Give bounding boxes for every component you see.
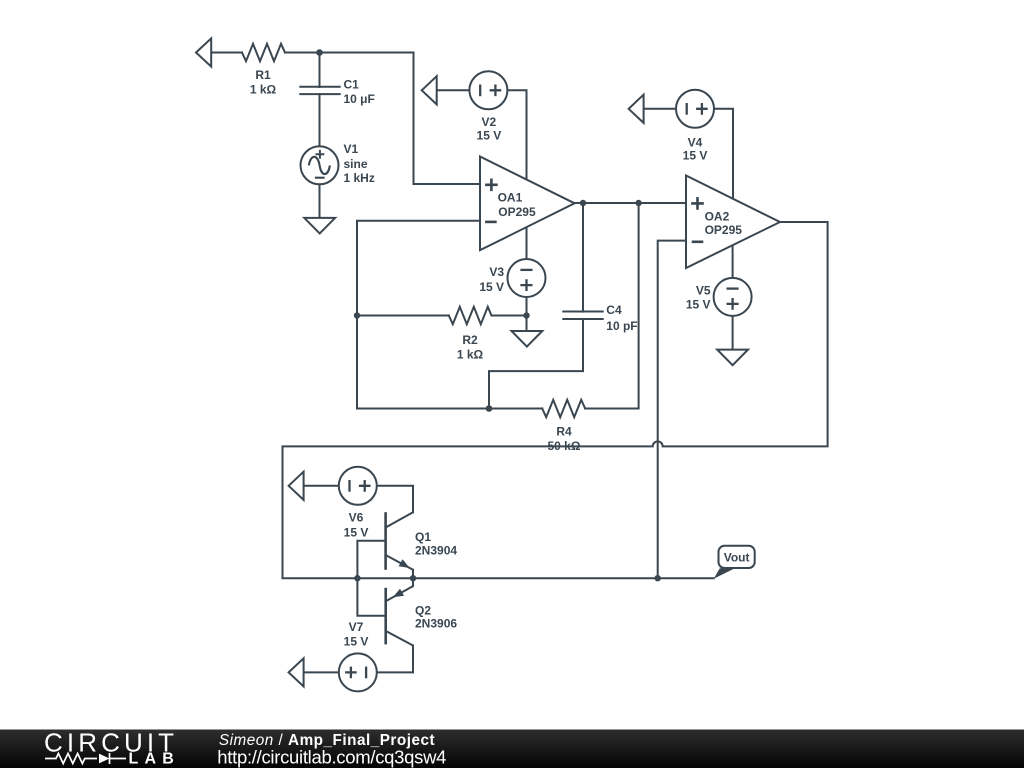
V4 bar glyph [686, 103, 688, 115]
op-amp OA1 [480, 157, 575, 251]
svg-text:1 kΩ: 1 kΩ [457, 348, 484, 362]
Vout flag box [719, 546, 755, 568]
wire R2 left lead [357, 315, 449, 317]
svg-text:V4: V4 [688, 135, 703, 149]
wire C4 bottom to R4 net [489, 319, 583, 409]
resistor R2 [449, 307, 492, 324]
node C4 / R4 wire [486, 405, 493, 412]
svg-text:50 kΩ: 50 kΩ [548, 439, 581, 453]
flag terminal V4 [629, 95, 644, 123]
svg-text:15 V: 15 V [344, 634, 369, 648]
svg-text:15 V: 15 V [344, 525, 369, 539]
svg-text:10 pF: 10 pF [606, 319, 637, 333]
node emitters [410, 575, 416, 581]
node R2 / OA1 inv [354, 312, 360, 318]
V3 minus glyph [520, 269, 532, 271]
flag terminal V2 [422, 76, 437, 104]
svg-text:V7: V7 [349, 620, 364, 634]
svg-text:15 V: 15 V [477, 129, 502, 143]
node R2 / V3 / ground [523, 312, 529, 318]
wire input flag to R1 [211, 52, 242, 54]
flag terminal V7 [289, 658, 304, 686]
wire OA2 bottom power pin to V5 [732, 243, 734, 278]
wire OA1 output to OA2 + input [575, 202, 686, 204]
svg-text:V3: V3 [489, 265, 504, 279]
wire V4 flag to V4 [644, 108, 676, 110]
V1 sine glyph [309, 157, 330, 174]
wire V6 flag to V6 [304, 485, 339, 487]
input flag terminal [196, 38, 211, 66]
svg-text:15 V: 15 V [479, 280, 504, 294]
voltage source V4 [676, 90, 714, 128]
voltage source V3 [508, 259, 546, 297]
wire V4 to OA2 top power pin [714, 109, 733, 200]
svg-text:1 kHz: 1 kHz [344, 171, 375, 185]
wire V6 to Q1 collector [377, 486, 413, 512]
wire OA2 inverting input down to output net [658, 241, 686, 579]
voltage source V5 [714, 278, 752, 316]
wire output node to C4 [582, 203, 584, 312]
svg-text:LAB: LAB [129, 751, 180, 768]
resistor R4 [542, 400, 585, 417]
wire R4 to OA1 output node [585, 203, 638, 409]
ground under V1 [304, 218, 335, 234]
wire C1 to V1 [319, 94, 321, 146]
OA2 + input glyph [691, 197, 704, 210]
svg-text:OA2: OA2 [705, 210, 730, 224]
V3 plus glyph [520, 279, 532, 291]
svg-text:10 μF: 10 μF [344, 92, 375, 106]
voltage source V1 (sine) [301, 146, 339, 184]
transistor Q2 2N3906 [386, 586, 413, 645]
svg-text:V6: V6 [349, 510, 364, 524]
svg-text:http://circuitlab.com/cq3qsw4: http://circuitlab.com/cq3qsw4 [217, 746, 446, 767]
V5 plus glyph [727, 298, 739, 310]
Q1 emitter arrow [399, 559, 410, 568]
svg-text:OP295: OP295 [705, 223, 743, 237]
OA1 - input glyph [485, 221, 497, 224]
wire Q1 base / Q2 base tie [357, 541, 385, 616]
wire R2 right lead to V3 node [492, 315, 527, 317]
wire OA1 inverting input to left vertical [357, 221, 542, 409]
svg-text:C4: C4 [606, 303, 622, 317]
wire OA1 bottom power pin to V3 [526, 224, 528, 259]
svg-text:V5: V5 [696, 284, 711, 298]
Vout flag tail [714, 568, 735, 579]
svg-text:2N3904: 2N3904 [415, 543, 457, 557]
wire V2 flag to V2 [437, 89, 470, 91]
svg-text:Vout: Vout [724, 551, 750, 565]
wire Q2 collector to V7 [377, 646, 413, 673]
flag terminal V6 [289, 472, 304, 500]
OA2 - input glyph [692, 241, 704, 244]
svg-text:1 kΩ: 1 kΩ [250, 83, 277, 97]
capacitor C1 [300, 87, 339, 94]
V5 minus glyph [727, 287, 739, 289]
wire V2 to OA1 top power pin [507, 90, 526, 185]
svg-text:OP295: OP295 [498, 205, 536, 219]
svg-text:15 V: 15 V [686, 297, 711, 311]
svg-text:V2: V2 [482, 115, 497, 129]
wire node to C1 [319, 53, 321, 88]
V7 plus glyph [345, 667, 357, 679]
node OA1 out / R4 [635, 200, 641, 206]
svg-text:sine: sine [344, 157, 368, 171]
svg-text:R4: R4 [556, 425, 572, 439]
junction node dots [316, 49, 661, 581]
wire R1 to node and to OA1 + input [285, 53, 480, 185]
node bases [354, 575, 360, 581]
svg-text:OA1: OA1 [498, 191, 523, 205]
wire V1 to ground [319, 184, 321, 218]
wire V5 to ground [732, 316, 734, 350]
Q2 emitter arrow [393, 589, 404, 598]
V6 plus glyph [359, 480, 371, 492]
svg-text:R2: R2 [462, 333, 478, 347]
V1 minus glyph [315, 177, 325, 179]
wire OA2 output loop to push-pull stage with hop over feedback [283, 222, 828, 578]
V1 plus glyph [316, 150, 325, 159]
V4 plus glyph [696, 103, 708, 115]
V2 bar glyph [479, 85, 481, 97]
CircuitLab logo resistor-diode glyph [45, 753, 126, 764]
op-amp OA2 [686, 176, 780, 269]
voltage source V2 [469, 71, 507, 109]
resistor R1 [242, 44, 285, 61]
voltage source V7 [339, 653, 377, 691]
svg-text:C1: C1 [344, 77, 360, 91]
V6 bar glyph [348, 480, 350, 492]
V2 plus glyph [490, 85, 502, 97]
svg-text:V1: V1 [344, 142, 359, 156]
node R1/C1 [316, 49, 323, 56]
transistor Q1 2N3904 [386, 512, 413, 570]
ground under V3 [512, 331, 543, 347]
V7 bar glyph [365, 667, 367, 679]
OA1 + input glyph [485, 179, 498, 192]
node feedback / Vout [655, 575, 661, 581]
ground under V5 [717, 350, 748, 366]
wire V3 to ground node [526, 297, 528, 331]
wire V7 flag to V7 [304, 671, 339, 673]
wire Q1 emitter to Q2 emitter [412, 570, 414, 586]
voltage source V6 [339, 467, 377, 505]
svg-text:Q1: Q1 [415, 530, 431, 544]
svg-text:2N3906: 2N3906 [415, 617, 457, 631]
capacitor C4 [563, 312, 602, 320]
node OA1 out / C4 [580, 200, 586, 206]
svg-text:R1: R1 [255, 68, 271, 82]
svg-text:15 V: 15 V [683, 149, 708, 163]
